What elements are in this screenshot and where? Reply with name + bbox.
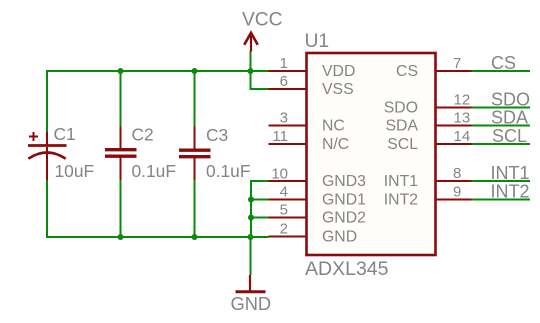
svg-text:3: 3	[280, 110, 288, 127]
svg-text:12: 12	[454, 92, 471, 109]
svg-text:GND3: GND3	[322, 173, 366, 190]
svg-text:SCL: SCL	[387, 136, 418, 153]
svg-text:C1: C1	[54, 124, 76, 144]
svg-text:6: 6	[280, 73, 288, 90]
svg-text:2: 2	[280, 221, 288, 238]
svg-text:5: 5	[280, 202, 288, 219]
svg-text:GND2: GND2	[322, 209, 366, 226]
svg-text:4: 4	[280, 184, 288, 201]
svg-text:GND: GND	[322, 228, 357, 245]
svg-text:14: 14	[454, 128, 471, 145]
svg-text:GND1: GND1	[322, 191, 366, 208]
svg-text:9: 9	[453, 184, 461, 201]
svg-text:VSS: VSS	[322, 81, 354, 98]
svg-text:INT1: INT1	[491, 163, 530, 183]
svg-text:C3: C3	[206, 125, 228, 145]
svg-text:CS: CS	[396, 63, 418, 80]
svg-text:10: 10	[271, 166, 288, 183]
svg-text:ADXL345: ADXL345	[305, 258, 389, 280]
svg-text:SCL: SCL	[492, 126, 527, 146]
svg-text:GND: GND	[231, 293, 272, 314]
svg-text:SDO: SDO	[491, 89, 530, 109]
svg-text:C2: C2	[132, 125, 154, 145]
svg-text:SDA: SDA	[491, 107, 528, 127]
svg-text:7: 7	[453, 55, 461, 72]
svg-text:10uF: 10uF	[55, 161, 95, 181]
svg-text:U1: U1	[305, 31, 330, 52]
svg-text:N/C: N/C	[322, 136, 349, 153]
svg-text:INT2: INT2	[384, 191, 418, 208]
svg-text:8: 8	[453, 165, 461, 182]
svg-text:NC: NC	[322, 117, 345, 134]
svg-text:VDD: VDD	[322, 63, 355, 80]
svg-text:13: 13	[454, 110, 471, 127]
svg-text:INT1: INT1	[384, 173, 418, 190]
svg-text:11: 11	[272, 128, 288, 145]
svg-text:INT2: INT2	[491, 181, 530, 201]
svg-text:0.1uF: 0.1uF	[132, 161, 176, 181]
svg-text:SDA: SDA	[386, 117, 419, 134]
svg-text:0.1uF: 0.1uF	[206, 161, 250, 181]
svg-text:SDO: SDO	[384, 99, 418, 116]
svg-text:CS: CS	[491, 53, 516, 73]
svg-text:VCC: VCC	[242, 10, 283, 31]
svg-text:1: 1	[280, 55, 288, 72]
